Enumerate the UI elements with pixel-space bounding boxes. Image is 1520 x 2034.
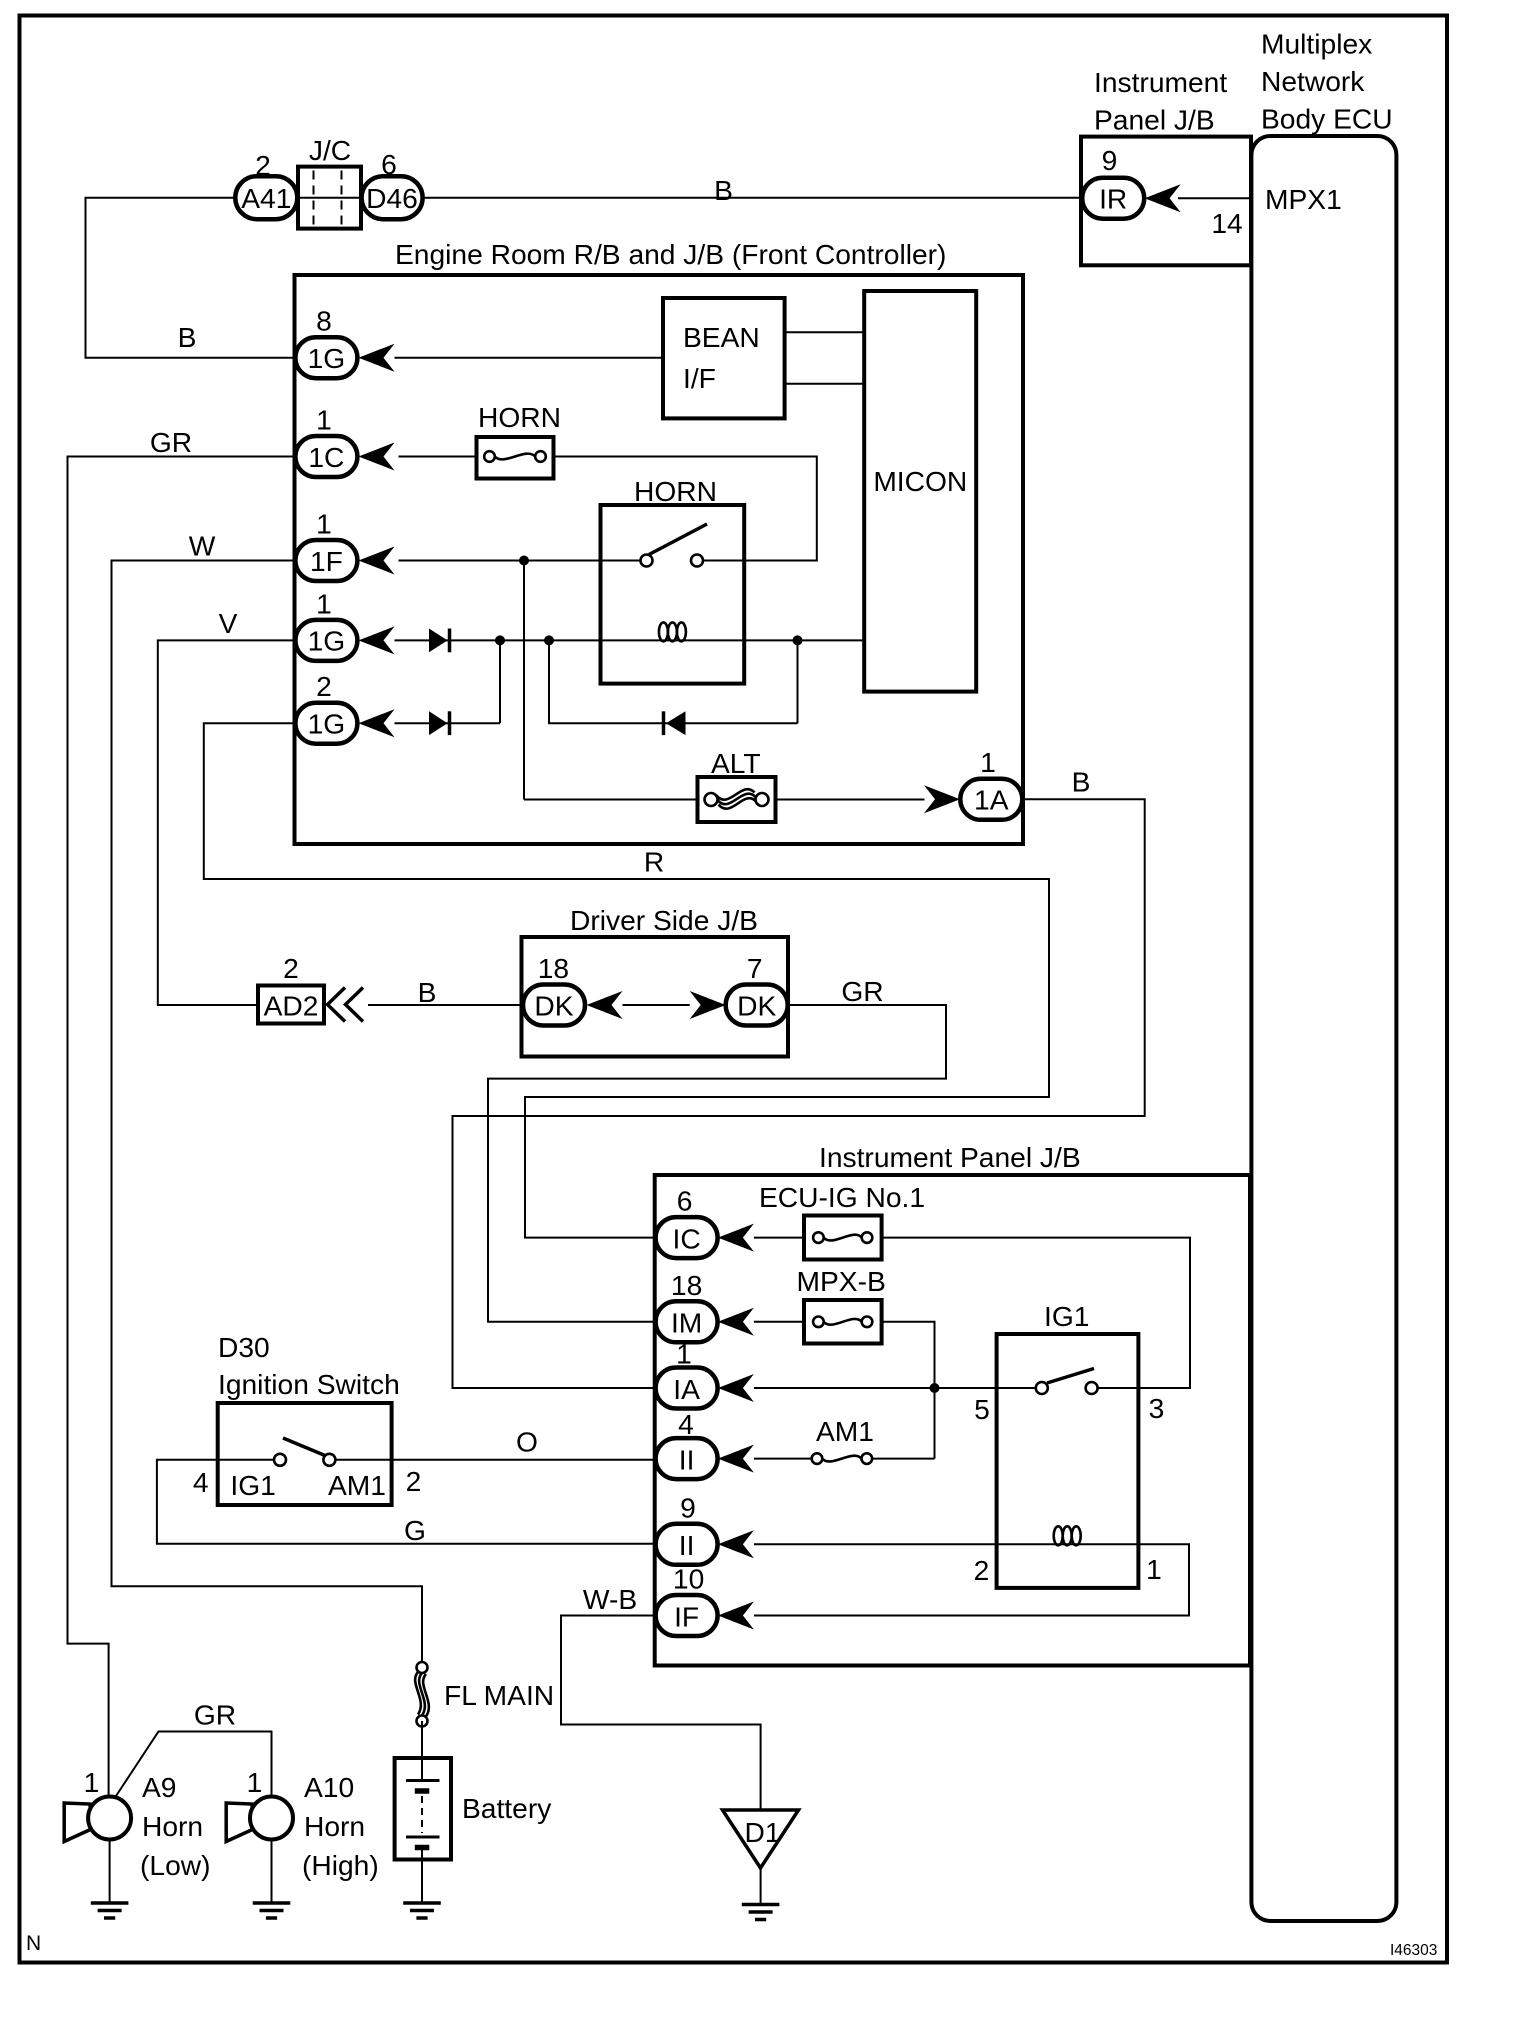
svg-text:Driver Side J/B: Driver Side J/B	[570, 904, 758, 936]
wire 1G(1) to MICON through diode and coil	[395, 639, 865, 641]
wire BEAN to MICON upper	[785, 331, 865, 333]
ground battery	[403, 1903, 441, 1918]
svg-text:Engine Room R/B and J/B (Front: Engine Room R/B and J/B (Front Controlle…	[395, 238, 946, 270]
Engine Room R/B and J/B box	[295, 275, 1024, 844]
svg-text:4: 4	[678, 1408, 694, 1440]
wire ALT fuse to 1A	[762, 799, 925, 801]
svg-text:10: 10	[673, 1563, 704, 1595]
svg-text:GR: GR	[150, 426, 192, 458]
battery	[395, 1758, 451, 1860]
fuse HORN	[477, 437, 554, 479]
svg-text:2: 2	[406, 1465, 422, 1497]
wire GR from DK(7) to IM	[488, 1005, 946, 1322]
svg-text:D30: D30	[218, 1331, 270, 1363]
svg-text:2: 2	[974, 1554, 990, 1586]
wire W from 1F to battery	[112, 561, 423, 1668]
svg-text:1: 1	[316, 403, 332, 435]
wire B from junction to A41 and down to 1G	[86, 198, 296, 358]
svg-text:BEAN: BEAN	[683, 321, 760, 353]
svg-text:9: 9	[680, 1491, 696, 1523]
svg-text:A9: A9	[142, 1771, 176, 1803]
wire B from 1A to IA	[453, 799, 1145, 1388]
svg-text:Panel J/B: Panel J/B	[1094, 104, 1215, 136]
svg-text:1: 1	[980, 746, 996, 778]
connector 1C	[295, 436, 357, 477]
svg-text:9: 9	[1102, 144, 1118, 176]
svg-text:IG1: IG1	[230, 1469, 275, 1501]
wire W-B from IF to D1	[561, 1616, 761, 1811]
wire IR to MPX1	[1178, 197, 1251, 199]
junction dot left on 1G(1) wire	[495, 635, 505, 645]
svg-text:1: 1	[247, 1766, 263, 1798]
arrow into 1A	[924, 785, 960, 813]
arrow into IM	[718, 1308, 754, 1336]
svg-text:Horn: Horn	[304, 1810, 365, 1842]
wire R from 1G(2) to IC	[204, 723, 1049, 1237]
svg-text:6: 6	[381, 148, 397, 180]
svg-text:R: R	[644, 846, 664, 878]
svg-text:Multiplex: Multiplex	[1261, 28, 1372, 60]
connector DK(18)	[523, 985, 585, 1026]
svg-text:18: 18	[671, 1269, 702, 1301]
connector 1G(8)	[295, 337, 357, 378]
wire MPX-B fuse to junction	[867, 1322, 935, 1459]
junction dot right on 1G(1) wire	[793, 635, 803, 645]
arrow into DK(18)	[587, 991, 623, 1019]
wire junction 1F down to ALT	[523, 561, 525, 800]
svg-text:5: 5	[974, 1393, 990, 1425]
connector 1F	[295, 540, 357, 581]
connector AD2	[258, 986, 324, 1024]
svg-text:W-B: W-B	[583, 1583, 637, 1615]
fusible link ALT	[698, 777, 776, 822]
svg-text:Ignition Switch: Ignition Switch	[218, 1368, 400, 1400]
arrow into DK(7)	[690, 991, 726, 1019]
arrow into 1C	[359, 443, 395, 471]
svg-text:3: 3	[1149, 1392, 1165, 1424]
svg-text:IC: IC	[673, 1222, 701, 1254]
junction dot on IA wire	[930, 1383, 940, 1393]
svg-text:D46: D46	[366, 182, 418, 214]
svg-text:AM1: AM1	[328, 1469, 386, 1501]
diode on 1G(1) wire	[429, 629, 450, 653]
svg-text:O: O	[516, 1426, 538, 1458]
svg-text:1: 1	[676, 1338, 692, 1370]
arrow into IC	[718, 1224, 754, 1252]
svg-text:IM: IM	[671, 1307, 702, 1339]
svg-text:GR: GR	[841, 975, 883, 1007]
relay HORN box	[601, 505, 745, 684]
svg-text:(High): (High)	[302, 1849, 379, 1881]
svg-text:7: 7	[747, 952, 763, 984]
svg-text:W: W	[189, 530, 216, 562]
fuse ECU-IG No.1	[804, 1216, 882, 1260]
BEAN I/F box	[663, 298, 785, 418]
diode reverse on branch	[664, 711, 686, 735]
fuse MPX-B	[804, 1300, 882, 1344]
horn A10	[226, 1797, 293, 1904]
arrow into 1F	[359, 547, 395, 575]
svg-text:1G: 1G	[308, 342, 346, 374]
ignition switch blade	[283, 1438, 325, 1456]
svg-text:MPX-B: MPX-B	[797, 1265, 886, 1297]
wire ECU-IG fuse to IG1 contact	[867, 1238, 1190, 1388]
svg-text:18: 18	[538, 952, 569, 984]
arrow into IA	[718, 1374, 754, 1402]
svg-text:HORN: HORN	[478, 401, 561, 433]
wire G from ignition switch to II(9)	[157, 1460, 656, 1544]
ignition switch contacts	[274, 1454, 286, 1466]
svg-text:D1: D1	[744, 1816, 780, 1848]
connector A41	[235, 176, 297, 219]
relay HORN coil	[659, 622, 686, 641]
connector 1G(2)	[295, 703, 357, 744]
connector IC	[656, 1217, 718, 1258]
svg-text:DK: DK	[737, 989, 776, 1021]
svg-text:Instrument: Instrument	[1094, 66, 1227, 98]
connector IM	[656, 1301, 718, 1342]
svg-text:I46303: I46303	[1390, 1942, 1437, 1959]
wire IC to ECU-IG fuse	[754, 1237, 819, 1239]
wire between DK connectors	[623, 1004, 690, 1006]
svg-text:G: G	[404, 1514, 426, 1546]
svg-text:Network: Network	[1261, 65, 1365, 97]
wire IA to IG1 switch	[754, 1387, 1036, 1389]
svg-text:B: B	[1072, 766, 1091, 798]
wire through J/C	[298, 197, 362, 199]
arrow into IR	[1145, 184, 1181, 212]
ground A9	[91, 1903, 129, 1918]
svg-text:II: II	[679, 1443, 695, 1475]
relay IG1 contacts	[1036, 1382, 1048, 1394]
connector DK(7)	[726, 985, 788, 1026]
wire junction to ALT fuse	[524, 799, 711, 801]
svg-text:N: N	[26, 1932, 41, 1955]
wire B from AD2 to DK(18)	[368, 1004, 523, 1006]
svg-text:1: 1	[84, 1766, 100, 1798]
svg-text:A41: A41	[241, 182, 291, 214]
svg-text:AD2: AD2	[264, 990, 319, 1022]
connector IA	[656, 1368, 718, 1409]
svg-text:FL MAIN: FL MAIN	[444, 1679, 554, 1711]
svg-text:IA: IA	[673, 1373, 700, 1405]
wire BEAN to MICON lower	[785, 383, 865, 385]
svg-text:6: 6	[677, 1185, 693, 1217]
svg-text:B: B	[714, 174, 733, 206]
double chevron at AD2	[328, 988, 364, 1022]
svg-text:ECU-IG No.1: ECU-IG No.1	[759, 1181, 925, 1213]
wire GR from 1C down to horns	[68, 457, 296, 1797]
svg-text:Horn: Horn	[142, 1810, 203, 1842]
J/C internal dashed pins	[314, 171, 342, 225]
svg-text:Instrument Panel J/B: Instrument Panel J/B	[819, 1141, 1081, 1173]
wire AM1 fuse to junction	[867, 1458, 935, 1460]
svg-text:HORN: HORN	[634, 475, 717, 507]
relay HORN contacts	[641, 555, 653, 567]
svg-text:1G: 1G	[308, 625, 346, 657]
relay IG1 coil	[1054, 1526, 1081, 1545]
svg-text:AM1: AM1	[816, 1415, 874, 1447]
relay HORN blade	[649, 524, 707, 555]
arrow into 1G(1)	[359, 626, 395, 654]
svg-text:IG1: IG1	[1044, 1300, 1089, 1332]
svg-text:V: V	[219, 607, 238, 639]
svg-text:GR: GR	[194, 1699, 236, 1731]
connector 1G(1)	[295, 620, 357, 661]
wire 1G(2) to junction	[395, 640, 501, 723]
ground A10	[253, 1903, 291, 1918]
arrow into 1G(8)	[359, 344, 395, 372]
relay IG1 blade	[1047, 1369, 1094, 1384]
wire GR link between horns	[114, 1732, 272, 1800]
wire 1C to HORN fuse	[399, 456, 490, 458]
svg-text:1C: 1C	[308, 441, 344, 473]
svg-text:DK: DK	[534, 989, 573, 1021]
connector II(9)	[656, 1524, 718, 1565]
svg-text:8: 8	[316, 305, 332, 337]
arrow into IF	[718, 1602, 754, 1630]
svg-text:2: 2	[316, 670, 332, 702]
svg-text:1G: 1G	[308, 708, 346, 740]
svg-text:14: 14	[1211, 207, 1242, 239]
wire HORN fuse to relay contact	[541, 457, 817, 561]
svg-text:1: 1	[316, 587, 332, 619]
relay IG1 box	[997, 1334, 1139, 1588]
horn A9	[64, 1797, 131, 1904]
wire D1 to ground	[760, 1868, 762, 1905]
svg-text:II: II	[679, 1529, 695, 1561]
connector IR	[1082, 178, 1144, 219]
MICON box	[864, 291, 976, 692]
wire 1G(8) to BEAN I/F	[395, 357, 664, 359]
arrow into II(4)	[718, 1445, 754, 1473]
wire 1F to relay switch	[399, 560, 641, 562]
wire IM to MPX-B fuse	[754, 1321, 819, 1323]
svg-text:1A: 1A	[974, 784, 1009, 816]
connector IF	[656, 1595, 718, 1636]
svg-text:2: 2	[255, 149, 271, 181]
wire O from ignition switch to II(4)	[335, 1459, 655, 1461]
wire FL MAIN to battery	[421, 1721, 423, 1758]
junction dot 1F	[519, 556, 529, 566]
wire D46 to IR	[423, 197, 1083, 199]
connector II(4)	[656, 1438, 718, 1479]
svg-text:4: 4	[193, 1466, 209, 1498]
arrow into 1G(2)	[359, 709, 395, 737]
diode on 1G(2) wire	[429, 711, 450, 735]
wire battery to ground	[421, 1860, 423, 1904]
junction dot mid on 1G(1) wire	[544, 635, 554, 645]
connector D46	[362, 176, 423, 219]
fusible link FL MAIN	[415, 1662, 429, 1727]
svg-text:MPX1: MPX1	[1265, 183, 1342, 215]
svg-text:J/C: J/C	[309, 134, 351, 166]
svg-text:(Low): (Low)	[140, 1849, 210, 1881]
Instrument Panel J/B (top) box	[1081, 137, 1251, 266]
svg-text:1: 1	[1146, 1553, 1162, 1585]
svg-text:MICON: MICON	[873, 465, 967, 497]
svg-text:B: B	[178, 321, 197, 353]
svg-text:Battery: Battery	[462, 1792, 552, 1824]
wire II(9) through IG1 coil to IF	[754, 1544, 1189, 1615]
Multiplex Network Body ECU box	[1251, 136, 1396, 1921]
svg-text:2: 2	[283, 952, 299, 984]
svg-text:A10: A10	[304, 1771, 354, 1803]
Instrument Panel J/B main box	[655, 1175, 1250, 1666]
ground D1	[742, 1905, 780, 1920]
svg-text:1F: 1F	[310, 545, 343, 577]
ground point D1	[723, 1810, 799, 1868]
wire V from 1G(1) to AD2	[158, 640, 296, 1005]
connector 1A	[960, 779, 1022, 820]
svg-text:IF: IF	[674, 1600, 699, 1632]
svg-text:IR: IR	[1099, 183, 1127, 215]
svg-text:1: 1	[316, 508, 332, 540]
svg-text:I/F: I/F	[683, 362, 716, 394]
fuse AM1	[812, 1453, 872, 1464]
arrow into II(9)	[718, 1530, 754, 1558]
svg-text:Body ECU: Body ECU	[1261, 103, 1393, 135]
svg-text:B: B	[418, 976, 437, 1008]
switch D30 Ignition box	[218, 1403, 392, 1505]
wire reverse diode branch	[549, 640, 798, 723]
wire II(4) to AM1 fuse	[754, 1458, 817, 1460]
svg-text:ALT: ALT	[711, 747, 761, 779]
junction J/C box	[298, 167, 361, 229]
Driver Side J/B box	[522, 937, 789, 1057]
